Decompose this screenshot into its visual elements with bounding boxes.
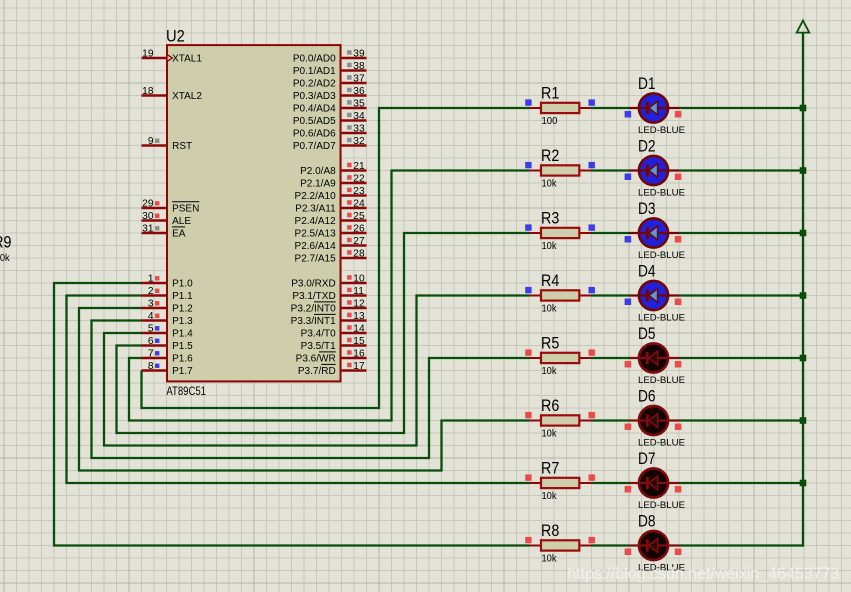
junction node rail row 3 — [800, 230, 807, 237]
svg-text:LED-BLUE: LED-BLUE — [638, 313, 685, 323]
svg-text:https://blog.csdn.net/weixin_4: https://blog.csdn.net/weixin_46453773 — [567, 565, 839, 583]
svg-text:27: 27 — [353, 236, 365, 247]
junction node rail row 4 — [800, 292, 807, 299]
resistor R3 — [529, 209, 592, 252]
svg-text:P1.1: P1.1 — [172, 291, 193, 302]
svg-text:ALE: ALE — [172, 216, 191, 227]
svg-text:XTAL2: XTAL2 — [172, 91, 202, 102]
junction node rail row 6 — [800, 417, 807, 424]
svg-text:10k: 10k — [542, 428, 557, 439]
svg-text:P1.2: P1.2 — [172, 304, 193, 315]
node square right of D1 (VCC) — [675, 111, 682, 118]
svg-text:10k: 10k — [0, 253, 10, 264]
resistor R7 — [529, 459, 592, 502]
svg-text:P0.6/AD6: P0.6/AD6 — [293, 129, 336, 140]
wire D8 to VCC rail — [679, 544, 804, 546]
U2 pin 33 (P0.6/AD6) — [293, 123, 367, 139]
svg-text:31: 31 — [142, 223, 154, 234]
svg-text:16: 16 — [353, 348, 365, 359]
wire P1.1 net loop — [67, 296, 530, 484]
node square left of D5 — [625, 361, 632, 368]
junction node rail row 5 — [800, 355, 807, 362]
U2 pin 10 (P3.0/RXD) — [291, 273, 366, 289]
svg-text:D2: D2 — [638, 136, 656, 155]
node square left of R5 — [525, 349, 531, 355]
node square right of R5 — [589, 349, 595, 355]
svg-text:24: 24 — [353, 198, 365, 209]
U2 pin 11 (P3.1/TXD) — [292, 286, 366, 302]
U2 pin 19 clock input arrow — [167, 55, 172, 62]
svg-text:P0.0/AD0: P0.0/AD0 — [293, 54, 336, 65]
svg-text:P1.0: P1.0 — [172, 279, 193, 290]
svg-text:37: 37 — [353, 73, 365, 84]
wire P1.5 net loop — [117, 233, 530, 433]
svg-text:XTAL1: XTAL1 — [172, 54, 202, 65]
svg-text:R3: R3 — [541, 209, 559, 228]
svg-text:P3.5/T1: P3.5/T1 — [301, 341, 336, 352]
svg-text:P3.2/INT0: P3.2/INT0 — [291, 304, 336, 315]
svg-text:P2.1/A9: P2.1/A9 — [300, 179, 336, 190]
svg-text:P0.5/AD5: P0.5/AD5 — [293, 116, 336, 127]
U2 pin 16 (P3.6/WR) — [296, 348, 367, 364]
svg-text:10k: 10k — [542, 366, 557, 377]
U2 pin 14 (P3.4/T0) — [301, 323, 367, 339]
junction node rail row 2 — [800, 167, 807, 174]
svg-text:P1.4: P1.4 — [172, 329, 193, 340]
U2 pin 27 (P2.6/A14) — [295, 236, 367, 252]
svg-text:P3.0/RXD: P3.0/RXD — [291, 279, 335, 290]
svg-text:17: 17 — [353, 361, 365, 372]
svg-text:8: 8 — [148, 361, 154, 372]
svg-text:P2.4/A12: P2.4/A12 — [295, 216, 337, 227]
wire D3 to VCC rail — [679, 232, 804, 234]
svg-text:10k: 10k — [542, 241, 557, 252]
U2 pin 32 (P0.7/AD7) — [293, 136, 367, 152]
svg-text:RST: RST — [172, 141, 192, 152]
U2 pin 37 (P0.2/AD2) — [293, 73, 367, 89]
svg-text:D7: D7 — [638, 449, 656, 468]
wire D2 to VCC rail — [679, 169, 804, 171]
resistor R4 — [529, 271, 592, 314]
svg-text:D3: D3 — [638, 199, 656, 218]
U2 pin 18 (XTAL2) — [142, 86, 203, 102]
wire P1.4 net loop — [104, 296, 529, 446]
U2 pin 21 (P2.0/A8) — [300, 161, 366, 177]
svg-text:D6: D6 — [638, 386, 656, 405]
svg-text:22: 22 — [353, 173, 365, 184]
node square left of R3 — [525, 224, 531, 230]
junction node rail row 1 — [800, 105, 807, 112]
U2 pin 39 (P0.0/AD0) — [293, 48, 367, 64]
node square left of D4 — [625, 299, 632, 306]
U2 pin 3 (P1.2) — [142, 298, 194, 314]
svg-text:D5: D5 — [638, 324, 656, 343]
node square left of D1 — [625, 111, 632, 118]
U2 pin 38 (P0.1/AD1) — [293, 61, 367, 77]
svg-text:10k: 10k — [542, 178, 557, 189]
node square right of D4 (VCC) — [675, 299, 682, 306]
resistor R5 — [529, 334, 592, 377]
svg-text:P2.3/A11: P2.3/A11 — [295, 204, 336, 215]
svg-text:13: 13 — [353, 311, 365, 322]
node square right of D7 (VCC) — [675, 486, 682, 493]
svg-text:P1.6: P1.6 — [172, 354, 193, 365]
svg-text:18: 18 — [142, 86, 154, 97]
LED D3 — [629, 199, 685, 260]
node square right of D6 (VCC) — [675, 424, 682, 431]
node square left of R1 — [525, 99, 531, 105]
wire D1 to VCC rail — [679, 107, 804, 109]
power rail VCC vertical wire — [802, 33, 804, 547]
U2 EA overline — [172, 226, 185, 228]
U2 pin 15 (P3.5/T1) — [301, 336, 367, 352]
U2 pin 13 (P3.3/INT1) — [291, 311, 367, 327]
node square left of D6 — [625, 424, 632, 431]
node square right of R8 — [589, 537, 595, 543]
U2 pin 7 (P1.6) — [142, 348, 194, 364]
wire D7 to VCC rail — [679, 482, 804, 484]
U2 pin 35 (P0.4/AD4) — [293, 98, 367, 114]
U2 pin 9 (RST) — [142, 136, 193, 152]
svg-text:35: 35 — [353, 98, 365, 109]
svg-text:34: 34 — [353, 111, 365, 122]
node square right of D8 (VCC) — [675, 549, 682, 556]
wire R3 to D3 — [592, 232, 630, 234]
U2 pin 6 (P1.5) — [142, 336, 194, 352]
node square left of R8 — [525, 537, 531, 543]
U2 pin 5 (P1.4) — [142, 323, 194, 339]
node square left of D8 — [625, 549, 632, 556]
node square right of R6 — [589, 412, 595, 418]
svg-text:R1: R1 — [541, 84, 559, 103]
svg-text:AT89C51: AT89C51 — [166, 386, 206, 398]
svg-text:P3.6/WR: P3.6/WR — [296, 354, 336, 365]
node square left of R2 — [525, 162, 531, 168]
svg-text:P1.5: P1.5 — [172, 341, 193, 352]
svg-text:P1.3: P1.3 — [172, 316, 193, 327]
U2 pin 34 (P0.5/AD5) — [293, 111, 367, 127]
node square right of D2 (VCC) — [675, 174, 682, 181]
svg-text:7: 7 — [148, 348, 154, 359]
node square right of R1 — [589, 99, 595, 105]
LED D5 — [629, 324, 685, 385]
svg-text:38: 38 — [353, 61, 365, 72]
node square left of R6 — [525, 412, 531, 418]
wire P1.0 net loop — [54, 283, 529, 546]
svg-text:R7: R7 — [541, 459, 559, 478]
svg-text:R4: R4 — [541, 271, 559, 290]
U2 pin 24 (P2.3/A11) — [295, 198, 366, 214]
wire P1.3 net loop — [92, 321, 530, 459]
svg-text:P0.1/AD1: P0.1/AD1 — [293, 66, 336, 77]
svg-text:LED-BLUE: LED-BLUE — [638, 438, 685, 448]
svg-text:30: 30 — [142, 211, 154, 222]
power symbol VCC arrow — [797, 21, 810, 33]
svg-text:5: 5 — [148, 323, 154, 334]
wire R6 to D6 — [592, 419, 630, 421]
svg-text:P3.1/TXD: P3.1/TXD — [292, 291, 335, 302]
svg-text:P2.0/A8: P2.0/A8 — [300, 166, 336, 177]
U2 pin 25 (P2.4/A12) — [295, 211, 367, 227]
svg-text:19: 19 — [142, 48, 154, 59]
wire R5 to D5 — [592, 357, 630, 359]
svg-text:32: 32 — [353, 136, 365, 147]
svg-text:R9: R9 — [0, 232, 11, 251]
node square left of R4 — [525, 287, 531, 293]
svg-text:29: 29 — [142, 198, 154, 209]
U2 pin 12 (P3.2/INT0) — [291, 298, 367, 314]
svg-text:1: 1 — [148, 273, 154, 284]
svg-text:12: 12 — [353, 298, 365, 309]
node square left of D7 — [625, 486, 632, 493]
svg-text:P0.2/AD2: P0.2/AD2 — [293, 79, 336, 90]
svg-text:PSEN: PSEN — [172, 204, 199, 215]
svg-text:21: 21 — [353, 161, 365, 172]
wire R2 to D2 — [592, 169, 630, 171]
U2 pin 8 (P1.7) — [142, 361, 194, 377]
svg-text:LED-BLUE: LED-BLUE — [638, 125, 685, 135]
LED D2 — [629, 136, 685, 197]
svg-text:2: 2 — [148, 286, 154, 297]
svg-text:D8: D8 — [638, 511, 656, 530]
wire D4 to VCC rail — [679, 294, 804, 296]
node square left of D2 — [625, 174, 632, 181]
svg-text:39: 39 — [353, 48, 365, 59]
svg-text:9: 9 — [148, 136, 154, 147]
U2 pin 22 (P2.1/A9) — [300, 173, 366, 189]
U2 pin 2 (P1.1) — [142, 286, 194, 302]
svg-text:23: 23 — [353, 186, 365, 197]
node square right of R7 — [589, 474, 595, 480]
svg-text:P0.3/AD3: P0.3/AD3 — [293, 91, 336, 102]
U2 pin 31 (EA) — [142, 223, 186, 239]
U2 pin 28 (P2.7/A15) — [295, 248, 367, 264]
svg-text:LED-BLUE: LED-BLUE — [638, 250, 685, 260]
U2 pin 23 (P2.2/A10) — [295, 186, 367, 202]
node square right of D5 (VCC) — [675, 361, 682, 368]
resistor R8 — [529, 521, 592, 564]
svg-text:14: 14 — [353, 323, 365, 334]
svg-text:D4: D4 — [638, 261, 656, 280]
svg-text:10k: 10k — [542, 491, 557, 502]
svg-text:6: 6 — [148, 336, 154, 347]
wire R8 to D8 — [592, 544, 630, 546]
wire R7 to D7 — [592, 482, 630, 484]
wire R4 to D4 — [592, 294, 630, 296]
resistor R6 — [529, 396, 592, 439]
LED D4 — [629, 261, 685, 322]
svg-text:15: 15 — [353, 336, 365, 347]
U2 pin 29 (PSEN) — [142, 198, 200, 214]
node square right of R4 — [589, 287, 595, 293]
svg-text:10k: 10k — [542, 553, 557, 564]
U2 pin 17 (P3.7/RD) — [298, 361, 367, 377]
svg-text:P3.4/T0: P3.4/T0 — [301, 329, 336, 340]
svg-text:R5: R5 — [541, 334, 559, 353]
svg-text:33: 33 — [353, 123, 365, 134]
svg-text:25: 25 — [353, 211, 365, 222]
U2 pin 4 (P1.3) — [142, 311, 194, 327]
U2 pin 19 (XTAL1) — [142, 48, 203, 64]
U2 PSEN overline — [172, 201, 199, 203]
svg-text:R2: R2 — [541, 146, 559, 165]
svg-text:R8: R8 — [541, 521, 559, 540]
svg-text:11: 11 — [353, 286, 364, 297]
svg-text:LED-BLUE: LED-BLUE — [638, 500, 685, 510]
svg-text:P1.7: P1.7 — [172, 366, 193, 377]
svg-text:P0.4/AD4: P0.4/AD4 — [293, 104, 336, 115]
node square right of D3 (VCC) — [675, 236, 682, 243]
svg-text:100: 100 — [542, 116, 558, 127]
svg-text:36: 36 — [353, 86, 365, 97]
U2 pin 1 (P1.0) — [142, 273, 194, 289]
svg-text:10: 10 — [353, 273, 365, 284]
junction node rail row 7 — [800, 480, 807, 487]
wire R1 to D1 — [592, 107, 630, 109]
svg-text:LED-BLUE: LED-BLUE — [638, 375, 685, 385]
svg-text:P2.6/A14: P2.6/A14 — [295, 241, 337, 252]
wire P1.2 net loop — [79, 308, 529, 471]
svg-text:EA: EA — [172, 229, 186, 240]
U2 pin 36 (P0.3/AD3) — [293, 86, 367, 102]
wire P1.6 net loop — [129, 171, 529, 421]
node square right of R3 — [589, 224, 595, 230]
svg-text:R6: R6 — [541, 396, 559, 415]
svg-text:LED-BLUE: LED-BLUE — [638, 188, 685, 198]
svg-text:P2.2/A10: P2.2/A10 — [295, 191, 337, 202]
node square left of D3 — [625, 236, 632, 243]
U2 pin 26 (P2.5/A13) — [295, 223, 367, 239]
svg-text:26: 26 — [353, 223, 365, 234]
svg-text:P0.7/AD7: P0.7/AD7 — [293, 141, 336, 152]
node square left of R7 — [525, 474, 531, 480]
wire P1.7 net loop — [142, 108, 530, 408]
svg-text:P2.7/A15: P2.7/A15 — [295, 254, 337, 265]
wire D6 to VCC rail — [679, 419, 804, 421]
svg-text:D1: D1 — [638, 74, 656, 93]
LED D1 — [629, 74, 685, 135]
node square right of R2 — [589, 162, 595, 168]
svg-text:P3.7/RD: P3.7/RD — [298, 366, 336, 377]
wire D5 to VCC rail — [679, 357, 804, 359]
LED D6 — [629, 386, 685, 447]
svg-text:U2: U2 — [166, 26, 185, 45]
svg-text:P2.5/A13: P2.5/A13 — [295, 229, 337, 240]
resistor R2 — [529, 146, 592, 189]
resistor R1 — [529, 84, 592, 127]
svg-text:28: 28 — [353, 248, 365, 259]
U2 pin 30 (ALE) — [142, 211, 192, 227]
svg-text:10k: 10k — [542, 303, 557, 314]
LED D7 — [629, 449, 685, 510]
svg-text:4: 4 — [148, 311, 154, 322]
IC U2 AT89C51 body — [167, 45, 341, 381]
svg-text:3: 3 — [148, 298, 154, 309]
svg-text:P3.3/INT1: P3.3/INT1 — [291, 316, 336, 327]
LED D8 — [629, 511, 685, 572]
